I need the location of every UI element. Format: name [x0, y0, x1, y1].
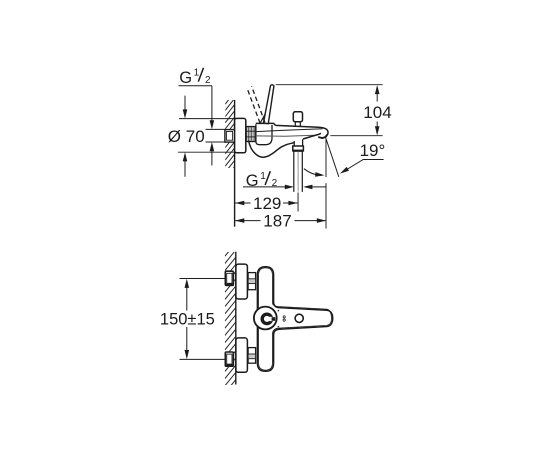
- hex nut top connection: [225, 271, 233, 285]
- svg-text:19°: 19°: [360, 141, 386, 160]
- dimension 187: [235, 220, 326, 222]
- label G 1/2 (bottom): [246, 171, 278, 190]
- svg-text:187: 187: [263, 212, 291, 231]
- svg-text:G: G: [179, 69, 192, 87]
- lever base wedge: [260, 114, 265, 124]
- dimension G1/2 bottom arrows: [243, 186, 286, 188]
- union nut top (front view): [248, 273, 256, 290]
- dial G ring slot: [267, 317, 275, 321]
- spout underside right of outlet nipple: [303, 133, 321, 139]
- shower outlet collar G1/2 thread: [293, 146, 304, 151]
- GROHE logo mark: [283, 316, 285, 318]
- lever circle detail: [295, 314, 303, 322]
- wall line (front view): [235, 252, 237, 385]
- dimension 150±15: [180, 279, 226, 360]
- svg-text:1: 1: [260, 171, 266, 182]
- svg-text:2: 2: [272, 178, 278, 189]
- body belly curve: [249, 141, 295, 158]
- extension lines G1/2 top: [206, 129, 225, 142]
- dial G crossbar: [272, 317, 276, 321]
- dimension 129: [235, 202, 298, 204]
- dimension dia70: arrows and text: [184, 96, 186, 177]
- dimension G1/2 top: leader and arrows: [179, 86, 212, 166]
- cartridge housing outline: [256, 124, 272, 145]
- wall flange escutcheon (side view): [235, 118, 246, 152]
- supply union square behind wall: [225, 130, 235, 143]
- extension line hose centre: [297, 193, 299, 212]
- wall hatching (front view): [225, 236, 236, 408]
- dimension 104: [276, 85, 383, 136]
- 19 degree leader line: [344, 160, 384, 172]
- svg-text:G: G: [246, 172, 259, 190]
- svg-text:104: 104: [363, 103, 391, 122]
- svg-text:Ø 70: Ø 70: [168, 127, 205, 146]
- 19 degree slanted reference line: [325, 137, 338, 177]
- spout bottom line B: [256, 135, 315, 136]
- label G 1/2 (top): [179, 67, 211, 86]
- spout inner line A: [256, 129, 323, 132]
- dial G ring: [262, 314, 271, 323]
- lever handle solid: [263, 85, 274, 124]
- 19 degree arc with arrow: [304, 169, 322, 176]
- fillet dots: [278, 310, 280, 312]
- shower outlet pipe lines: [294, 152, 303, 192]
- union nut knurled (side view): [246, 127, 256, 142]
- wall hatching (side view): [225, 86, 234, 191]
- diverter knob: [293, 112, 302, 122]
- svg-text:129: 129: [253, 194, 281, 213]
- hex nut bottom connection: [225, 352, 233, 366]
- escutcheon bottom (front view): [236, 338, 248, 372]
- spout outlet tip: [318, 134, 327, 138]
- svg-text:150±15: 150±15: [160, 310, 215, 328]
- escutcheon top (front view): [236, 264, 248, 299]
- diverter knob stem: [295, 122, 300, 127]
- body inner highlight line: [259, 268, 332, 370]
- mixer body top edge: [256, 123, 328, 135]
- svg-text:1: 1: [194, 67, 200, 78]
- extension line from spout tip: [325, 138, 327, 228]
- extension lines dia70: [178, 119, 235, 153]
- lever alternate position (dashed): [247, 86, 265, 123]
- temperature dial outer circle: [254, 307, 277, 330]
- wall line (side view): [234, 100, 236, 227]
- svg-text:2: 2: [205, 75, 211, 86]
- union nut bottom (front view): [248, 348, 256, 364]
- shower outlet nipple: [294, 139, 302, 146]
- mixer body capsule and lever (front view): [257, 267, 332, 372]
